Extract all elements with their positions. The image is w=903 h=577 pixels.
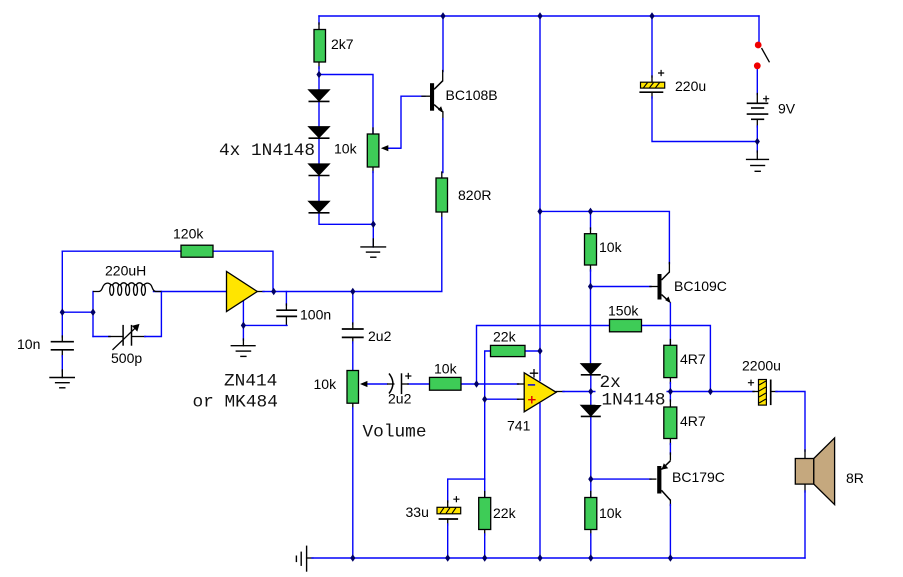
node top rail / central V+ — [537, 12, 542, 20]
wire 820R bottom down and left to detector output node — [274, 212, 442, 292]
resistor R11 4R7 (upper) — [664, 345, 677, 377]
label 33u — [406, 504, 429, 520]
label 9V — [778, 101, 796, 117]
label 10k (volume pot) — [314, 376, 338, 392]
node rail / 10k — [588, 554, 593, 562]
diode D4 1N4148 — [309, 201, 330, 213]
wire volume wiper to 2u2 electrolytic — [365, 383, 388, 385]
label 220uH — [105, 263, 146, 279]
capacitor C8 2200u electrolytic — [748, 380, 771, 406]
wire battery bottom to node — [756, 119, 758, 141]
svg-text:10k: 10k — [334, 141, 358, 157]
node output / 150k / 2200u — [708, 388, 713, 396]
wire 22k left leg down to non-inverting input and 33u node — [485, 351, 491, 479]
label 4R7 (lower) — [680, 413, 706, 429]
node diode chain bottom / pot — [371, 221, 376, 229]
wire non-inverting input into 741 — [485, 398, 525, 400]
wire 22k(bottom) leads — [484, 479, 486, 558]
svg-text:ZN414: ZN414 — [224, 372, 277, 392]
inductor L1 220uH — [93, 283, 161, 295]
svg-text:150k: 150k — [608, 303, 639, 319]
label 2u2 (electrolytic) — [388, 391, 412, 407]
transistor Q3 BC179C (PNP) — [657, 461, 670, 501]
wire 22k right lead to V+ rail junction — [525, 350, 540, 352]
node 22k / V+ rail — [537, 347, 542, 355]
battery B1 9V — [747, 96, 770, 120]
diode D6 1N4148 (bias lower) — [581, 405, 601, 416]
wire junction below 2k7 to 10k pot top — [319, 75, 373, 135]
wire BC179C collector to ground rail — [669, 500, 671, 558]
node 2u2 branch — [350, 288, 355, 296]
wire 10k to inverting node — [461, 383, 477, 385]
label BC179C — [672, 469, 725, 485]
wire 10k(bias) top lead — [590, 211, 592, 233]
label 10k (bottom) — [599, 505, 623, 521]
node rail / 22k — [482, 554, 487, 562]
svg-text:220uH: 220uH — [105, 263, 146, 279]
speaker LS1 8R — [795, 438, 834, 505]
node op-amp output / diodes — [588, 388, 593, 396]
label 100n — [300, 307, 331, 323]
wire inverting input into 741 — [477, 383, 525, 385]
wire volume pot bottom to ground rail — [352, 403, 354, 558]
ground G1 below 10k pot — [361, 224, 386, 257]
resistor R4 120k — [181, 245, 213, 257]
wire 4R7a bottom to output node — [669, 378, 671, 392]
node BC109C base — [588, 283, 593, 291]
node BC179C base / 10k — [588, 475, 593, 483]
transistor Q2 BC109C — [658, 272, 671, 303]
resistor R14 10k (bottom) — [585, 498, 597, 530]
label 4x 1N4148 — [219, 141, 315, 161]
svg-text:BC179C: BC179C — [672, 469, 725, 485]
capacitor C2 500p variable — [113, 324, 140, 350]
label Volume — [363, 423, 427, 443]
ground G5 below battery — [747, 142, 769, 172]
wire 500p right to tank right column up to ZN414 input — [132, 292, 227, 337]
diode D3 1N4148 — [309, 164, 330, 176]
wire 150k feedback: node up, across, down to output node — [477, 326, 711, 392]
wire 2k7 bottom to diode chain — [318, 62, 320, 91]
wire top V+ rail — [319, 15, 759, 17]
svg-text:or MK484: or MK484 — [193, 393, 278, 413]
svg-text:Volume: Volume — [363, 423, 427, 443]
wire 10k(bias) bottom to BC109C base — [591, 265, 658, 287]
svg-text:22k: 22k — [493, 329, 517, 345]
node output / 4R7 pair — [668, 388, 673, 396]
wire 2u2 series cap branch — [352, 292, 354, 371]
wire central V+ rail from top to 741 — [539, 16, 541, 381]
wire top-right branch to BC109C collector — [540, 211, 669, 272]
resistor R13 22k (bottom) — [479, 498, 491, 530]
transistor Q1 BC108B — [430, 81, 444, 113]
wire 2k7 top lead — [318, 16, 320, 30]
potentiometer VR1 10k body — [367, 134, 379, 167]
node ZN414 gnd / 100n — [241, 322, 246, 330]
wire diode chain segments — [318, 101, 320, 201]
wire output node to 4R7b top — [669, 392, 671, 408]
resistor R12 4R7 (lower) — [664, 407, 677, 439]
wire output node to 2200u — [710, 391, 758, 393]
capacitor C5 2u2 electrolytic (horizontal) — [387, 373, 411, 394]
ground G2 below 10n — [50, 350, 74, 388]
wire BC108B collector to rail — [442, 16, 444, 81]
label 22k (bottom) — [493, 505, 517, 521]
wire bias diode column — [590, 287, 592, 480]
node top rail / BC108B collector — [440, 12, 445, 20]
diode D5 1N4148 (bias upper) — [581, 364, 601, 375]
node battery minus — [755, 138, 760, 146]
capacitor C6 33u electrolytic — [437, 496, 461, 519]
label 8R — [846, 470, 864, 486]
potentiometer VR2 10k volume body — [347, 371, 359, 404]
label 2k7 — [331, 36, 354, 52]
label 120k — [173, 226, 204, 242]
svg-text:10k: 10k — [434, 361, 458, 377]
svg-text:100n: 100n — [300, 307, 331, 323]
ground G3 below ZN414 — [231, 339, 255, 356]
wire ZN414 output lead — [257, 291, 273, 293]
capacitor C4 2u2 (series) — [342, 329, 364, 337]
label 10k (VR1) — [334, 141, 358, 157]
node inverting input — [474, 380, 479, 388]
wire diode chain bottom to pot-bottom junction — [319, 213, 373, 225]
switch S1 — [754, 42, 770, 70]
wire speaker bottom to ground rail — [804, 484, 806, 558]
svg-text:120k: 120k — [173, 226, 204, 242]
wire tank left column — [92, 292, 94, 337]
label 4R7 (upper) — [680, 351, 706, 367]
label 741 — [507, 418, 531, 434]
node below 2k7 — [316, 71, 321, 79]
wire pot1 wiper to BC108B base — [385, 96, 430, 148]
wire diode mid node to 4R7 output node (under label) — [591, 391, 711, 393]
wire 10n top lead — [61, 312, 63, 342]
label 820R — [458, 187, 491, 203]
diode D1 1N4148 — [309, 90, 330, 102]
wire BC179C base — [591, 478, 656, 480]
wire 33u bottom to rail — [447, 519, 449, 558]
svg-text:220u: 220u — [675, 78, 706, 94]
potentiometer VR1 wiper arrow — [381, 145, 401, 151]
svg-text:2k7: 2k7 — [331, 36, 354, 52]
label 2200u — [742, 358, 781, 374]
capacitor C1 10n — [51, 342, 74, 350]
svg-text:2u2: 2u2 — [388, 391, 412, 407]
potentiometer VR2 wiper arrow — [360, 381, 367, 387]
wire BC109C emitter to 4R7 — [669, 303, 671, 345]
node rail / 33u — [445, 554, 450, 562]
node tank tap — [90, 308, 95, 316]
resistor R9 150k — [610, 319, 642, 331]
ground G4 rail left end (pointing left) — [296, 546, 306, 571]
svg-text:10k: 10k — [314, 376, 338, 392]
svg-text:BC109C: BC109C — [674, 278, 727, 294]
wire 2200u to speaker — [771, 392, 805, 459]
label 2x 1N4148 — [596, 373, 667, 411]
capacitor C7 220u electrolytic — [639, 70, 664, 92]
svg-text:33u: 33u — [406, 504, 429, 520]
label 22k (feedback) — [493, 329, 517, 345]
wire ZN414 ground pin — [242, 301, 244, 340]
node non-inverting input — [482, 395, 487, 403]
wire 220u branch from rail — [651, 16, 653, 82]
node rail / BC179C — [668, 554, 673, 562]
wire BC108B emitter to 820R — [442, 112, 443, 178]
resistor R7 10k (op-amp input) — [430, 377, 462, 390]
node rail / 741 V- — [537, 554, 542, 562]
svg-text:10k: 10k — [599, 505, 623, 521]
svg-text:4x 1N4148: 4x 1N4148 — [219, 141, 315, 161]
svg-text:820R: 820R — [458, 187, 491, 203]
wire 741 V- pin to ground rail — [539, 404, 541, 559]
wire switch to battery top — [756, 70, 758, 104]
node V+ rail / bias branch — [537, 208, 542, 216]
wire 10k pot bottom to junction — [372, 167, 374, 224]
svg-text:9V: 9V — [778, 101, 796, 117]
svg-text:BC108B: BC108B — [446, 87, 498, 103]
svg-text:2200u: 2200u — [742, 358, 781, 374]
IC U1 ZN414 amp triangle — [227, 272, 258, 312]
wire 33u branch from non-inverting node — [448, 479, 485, 507]
node ZN414 output — [271, 288, 276, 296]
node top rail / 220u — [649, 12, 654, 20]
wire left antenna column — [61, 251, 63, 312]
svg-text:2u2: 2u2 — [368, 328, 392, 344]
resistor R1 2k7 — [314, 30, 326, 63]
svg-text:22k: 22k — [493, 505, 517, 521]
wire 741 output to diode mid node — [556, 391, 591, 393]
wire 10k(bottom) leads — [590, 479, 592, 558]
svg-text:500p: 500p — [111, 350, 142, 366]
wire 4R7b bottom to BC179C emitter — [669, 439, 671, 461]
resistor R8 22k (feedback) — [491, 345, 526, 356]
wire 120k net: corner to resistor and to output node — [62, 251, 273, 291]
label 10n — [17, 336, 40, 352]
label 150k — [608, 303, 639, 319]
svg-text:741: 741 — [507, 418, 531, 434]
wire antenna junction to tank junction — [62, 311, 93, 313]
node bias 10k top — [588, 208, 593, 216]
label BC109C — [674, 278, 727, 294]
label 2u2 (series) — [368, 328, 392, 344]
capacitor C3 100n — [276, 310, 297, 316]
svg-text:10n: 10n — [17, 336, 40, 352]
wire 220u bottom to battery minus node — [652, 92, 757, 141]
label 10k (bias top) — [599, 239, 623, 255]
node antenna / 10n — [60, 308, 65, 316]
resistor R10 10k (bias top) — [585, 234, 597, 265]
wire 100n branch from output node — [243, 292, 287, 326]
wire 2u2 electrolytic to 10k — [408, 383, 430, 385]
diode D2 1N4148 — [309, 127, 330, 139]
node rail / volume — [350, 554, 355, 562]
label 500p — [111, 350, 142, 366]
svg-text:10k: 10k — [599, 239, 623, 255]
svg-text:4R7: 4R7 — [680, 351, 706, 367]
wire tank bottom to 500p — [93, 336, 123, 338]
svg-text:1N4148: 1N4148 — [602, 391, 666, 411]
svg-text:8R: 8R — [846, 470, 864, 486]
label ZN414 or MK484 — [193, 372, 278, 413]
junction nodes (diamonds) — [60, 12, 760, 562]
label BC108B — [446, 87, 498, 103]
resistor R3 820R — [436, 178, 448, 212]
wire switch drop from rail — [758, 16, 760, 42]
label 220u — [675, 78, 706, 94]
svg-text:4R7: 4R7 — [680, 413, 706, 429]
op-amp U2 741 triangle — [524, 369, 556, 412]
wire ground bottom rail — [307, 557, 805, 559]
label 10k (op-amp input) — [434, 361, 458, 377]
